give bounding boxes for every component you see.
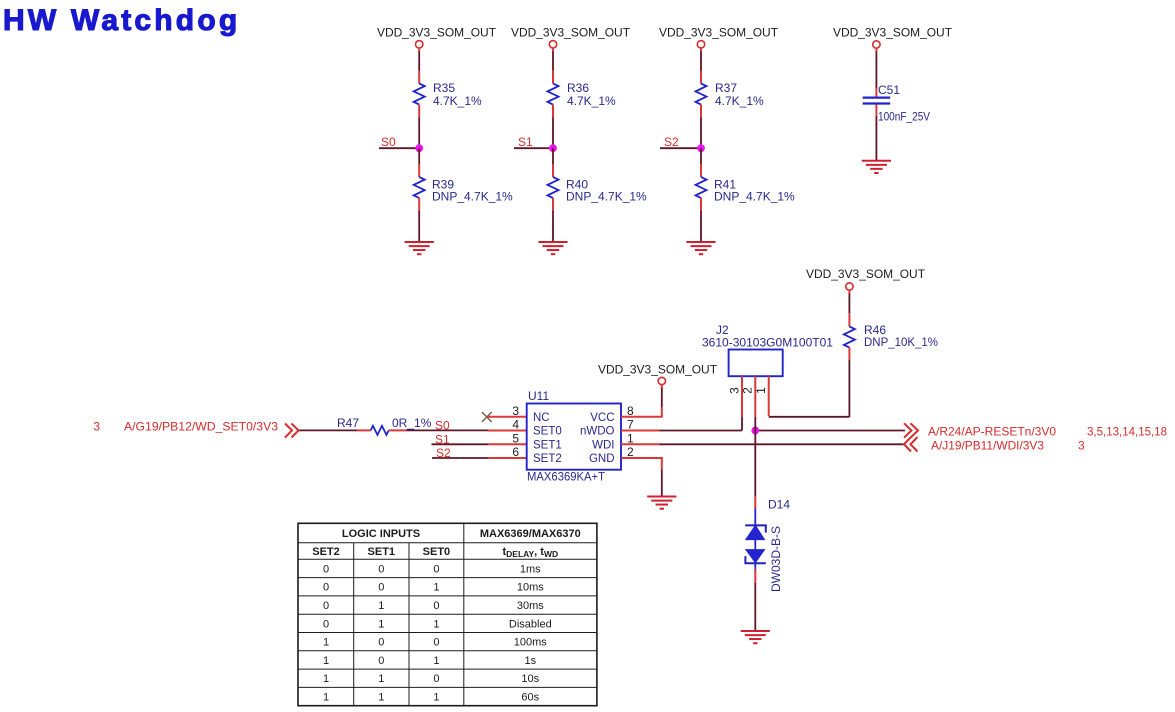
svg-text:3: 3	[727, 387, 741, 394]
svg-text:U11: U11	[528, 389, 549, 403]
svg-text:R35: R35	[433, 81, 455, 95]
svg-text:3610-30103G0M100T01: 3610-30103G0M100T01	[702, 336, 833, 350]
svg-text:D14: D14	[768, 498, 790, 512]
svg-text:2: 2	[627, 445, 634, 459]
svg-text:SET1: SET1	[533, 440, 562, 452]
svg-text:Disabled: Disabled	[509, 618, 552, 630]
svg-text:S0: S0	[381, 135, 396, 149]
svg-text:100ms: 100ms	[514, 637, 548, 649]
svg-text:LOGIC INPUTS: LOGIC INPUTS	[342, 528, 420, 540]
svg-text:100nF_25V: 100nF_25V	[878, 110, 930, 124]
svg-text:R47: R47	[337, 416, 359, 430]
svg-text:1: 1	[433, 618, 439, 630]
svg-text:DNP_10K_1%: DNP_10K_1%	[864, 335, 938, 349]
svg-text:3,5,13,14,15,18: 3,5,13,14,15,18	[1087, 425, 1167, 439]
svg-text:4: 4	[512, 418, 519, 432]
svg-text:3: 3	[93, 420, 100, 434]
svg-text:3: 3	[1078, 438, 1085, 452]
svg-text:1: 1	[378, 692, 384, 704]
svg-text:VDD_3V3_SOM_OUT: VDD_3V3_SOM_OUT	[377, 26, 497, 40]
svg-text:WDI: WDI	[592, 440, 614, 452]
svg-text:SET2: SET2	[312, 546, 340, 558]
svg-text:1: 1	[433, 582, 439, 594]
svg-text:30ms: 30ms	[517, 600, 544, 612]
svg-text:SET2: SET2	[533, 453, 562, 465]
svg-text:0: 0	[323, 618, 329, 630]
svg-text:1: 1	[754, 387, 768, 394]
svg-text:tDELAY, tWD: tDELAY, tWD	[502, 546, 558, 559]
svg-text:0: 0	[433, 637, 439, 649]
svg-text:A/J19/PB11/WDI/3V3: A/J19/PB11/WDI/3V3	[931, 438, 1044, 452]
svg-text:0: 0	[433, 673, 439, 685]
svg-text:4.7K_1%: 4.7K_1%	[715, 94, 764, 108]
svg-text:MAX6369KA+T: MAX6369KA+T	[527, 472, 605, 484]
svg-text:0: 0	[433, 600, 439, 612]
svg-text:0: 0	[378, 563, 384, 575]
svg-text:3: 3	[512, 404, 519, 418]
svg-text:1: 1	[433, 692, 439, 704]
svg-text:10s: 10s	[521, 673, 539, 685]
svg-text:NC: NC	[533, 412, 550, 424]
svg-text:0: 0	[323, 600, 329, 612]
svg-text:VDD_3V3_SOM_OUT: VDD_3V3_SOM_OUT	[806, 267, 926, 281]
svg-text:60s: 60s	[521, 692, 539, 704]
svg-text:0: 0	[323, 563, 329, 575]
svg-text:nWDO: nWDO	[580, 426, 615, 438]
svg-text:HW Watchdog: HW Watchdog	[3, 4, 240, 37]
svg-text:A/G19/PB12/WD_SET0/3V3: A/G19/PB12/WD_SET0/3V3	[124, 420, 278, 434]
svg-text:5: 5	[512, 431, 519, 445]
svg-text:S2: S2	[436, 446, 451, 460]
svg-text:4.7K_1%: 4.7K_1%	[433, 94, 482, 108]
svg-text:1: 1	[323, 692, 329, 704]
svg-text:1: 1	[433, 655, 439, 667]
svg-text:VDD_3V3_SOM_OUT: VDD_3V3_SOM_OUT	[511, 26, 631, 40]
svg-text:1s: 1s	[524, 655, 536, 667]
svg-text:0R_1%: 0R_1%	[392, 416, 432, 430]
svg-text:VDD_3V3_SOM_OUT: VDD_3V3_SOM_OUT	[833, 26, 953, 40]
svg-text:DNP_4.7K_1%: DNP_4.7K_1%	[714, 190, 795, 204]
svg-text:4.7K_1%: 4.7K_1%	[567, 94, 616, 108]
svg-text:R37: R37	[715, 81, 737, 95]
svg-text:VCC: VCC	[590, 412, 614, 424]
svg-text:S1: S1	[518, 135, 533, 149]
svg-text:0: 0	[378, 582, 384, 594]
svg-text:SET1: SET1	[368, 546, 396, 558]
svg-text:S2: S2	[664, 135, 679, 149]
svg-text:2: 2	[741, 387, 755, 394]
svg-text:1: 1	[323, 673, 329, 685]
svg-text:0: 0	[378, 637, 384, 649]
svg-text:1: 1	[627, 431, 634, 445]
svg-text:S0: S0	[435, 419, 450, 433]
svg-text:10ms: 10ms	[517, 582, 544, 594]
svg-text:VDD_3V3_SOM_OUT: VDD_3V3_SOM_OUT	[598, 363, 718, 377]
svg-text:6: 6	[512, 445, 519, 459]
svg-text:S1: S1	[435, 432, 450, 446]
svg-text:DNP_4.7K_1%: DNP_4.7K_1%	[432, 190, 513, 204]
svg-text:DW03D-B-S: DW03D-B-S	[769, 526, 783, 592]
svg-text:DNP_4.7K_1%: DNP_4.7K_1%	[566, 190, 647, 204]
svg-text:1: 1	[378, 600, 384, 612]
svg-text:0: 0	[378, 655, 384, 667]
svg-text:1ms: 1ms	[520, 563, 541, 575]
svg-text:SET0: SET0	[533, 426, 562, 438]
svg-text:C51: C51	[878, 83, 900, 97]
svg-text:1: 1	[378, 618, 384, 630]
svg-text:A/R24/AP-RESETn/3V0: A/R24/AP-RESETn/3V0	[928, 425, 1056, 439]
svg-text:MAX6369/MAX6370: MAX6369/MAX6370	[480, 528, 581, 540]
svg-text:1: 1	[323, 637, 329, 649]
svg-text:0: 0	[433, 563, 439, 575]
svg-text:R36: R36	[567, 81, 589, 95]
svg-text:8: 8	[627, 404, 634, 418]
svg-text:1: 1	[378, 673, 384, 685]
svg-text:SET0: SET0	[423, 546, 451, 558]
svg-text:VDD_3V3_SOM_OUT: VDD_3V3_SOM_OUT	[659, 26, 779, 40]
svg-text:0: 0	[323, 582, 329, 594]
svg-text:1: 1	[323, 655, 329, 667]
svg-text:7: 7	[627, 418, 634, 432]
svg-text:GND: GND	[589, 453, 615, 465]
